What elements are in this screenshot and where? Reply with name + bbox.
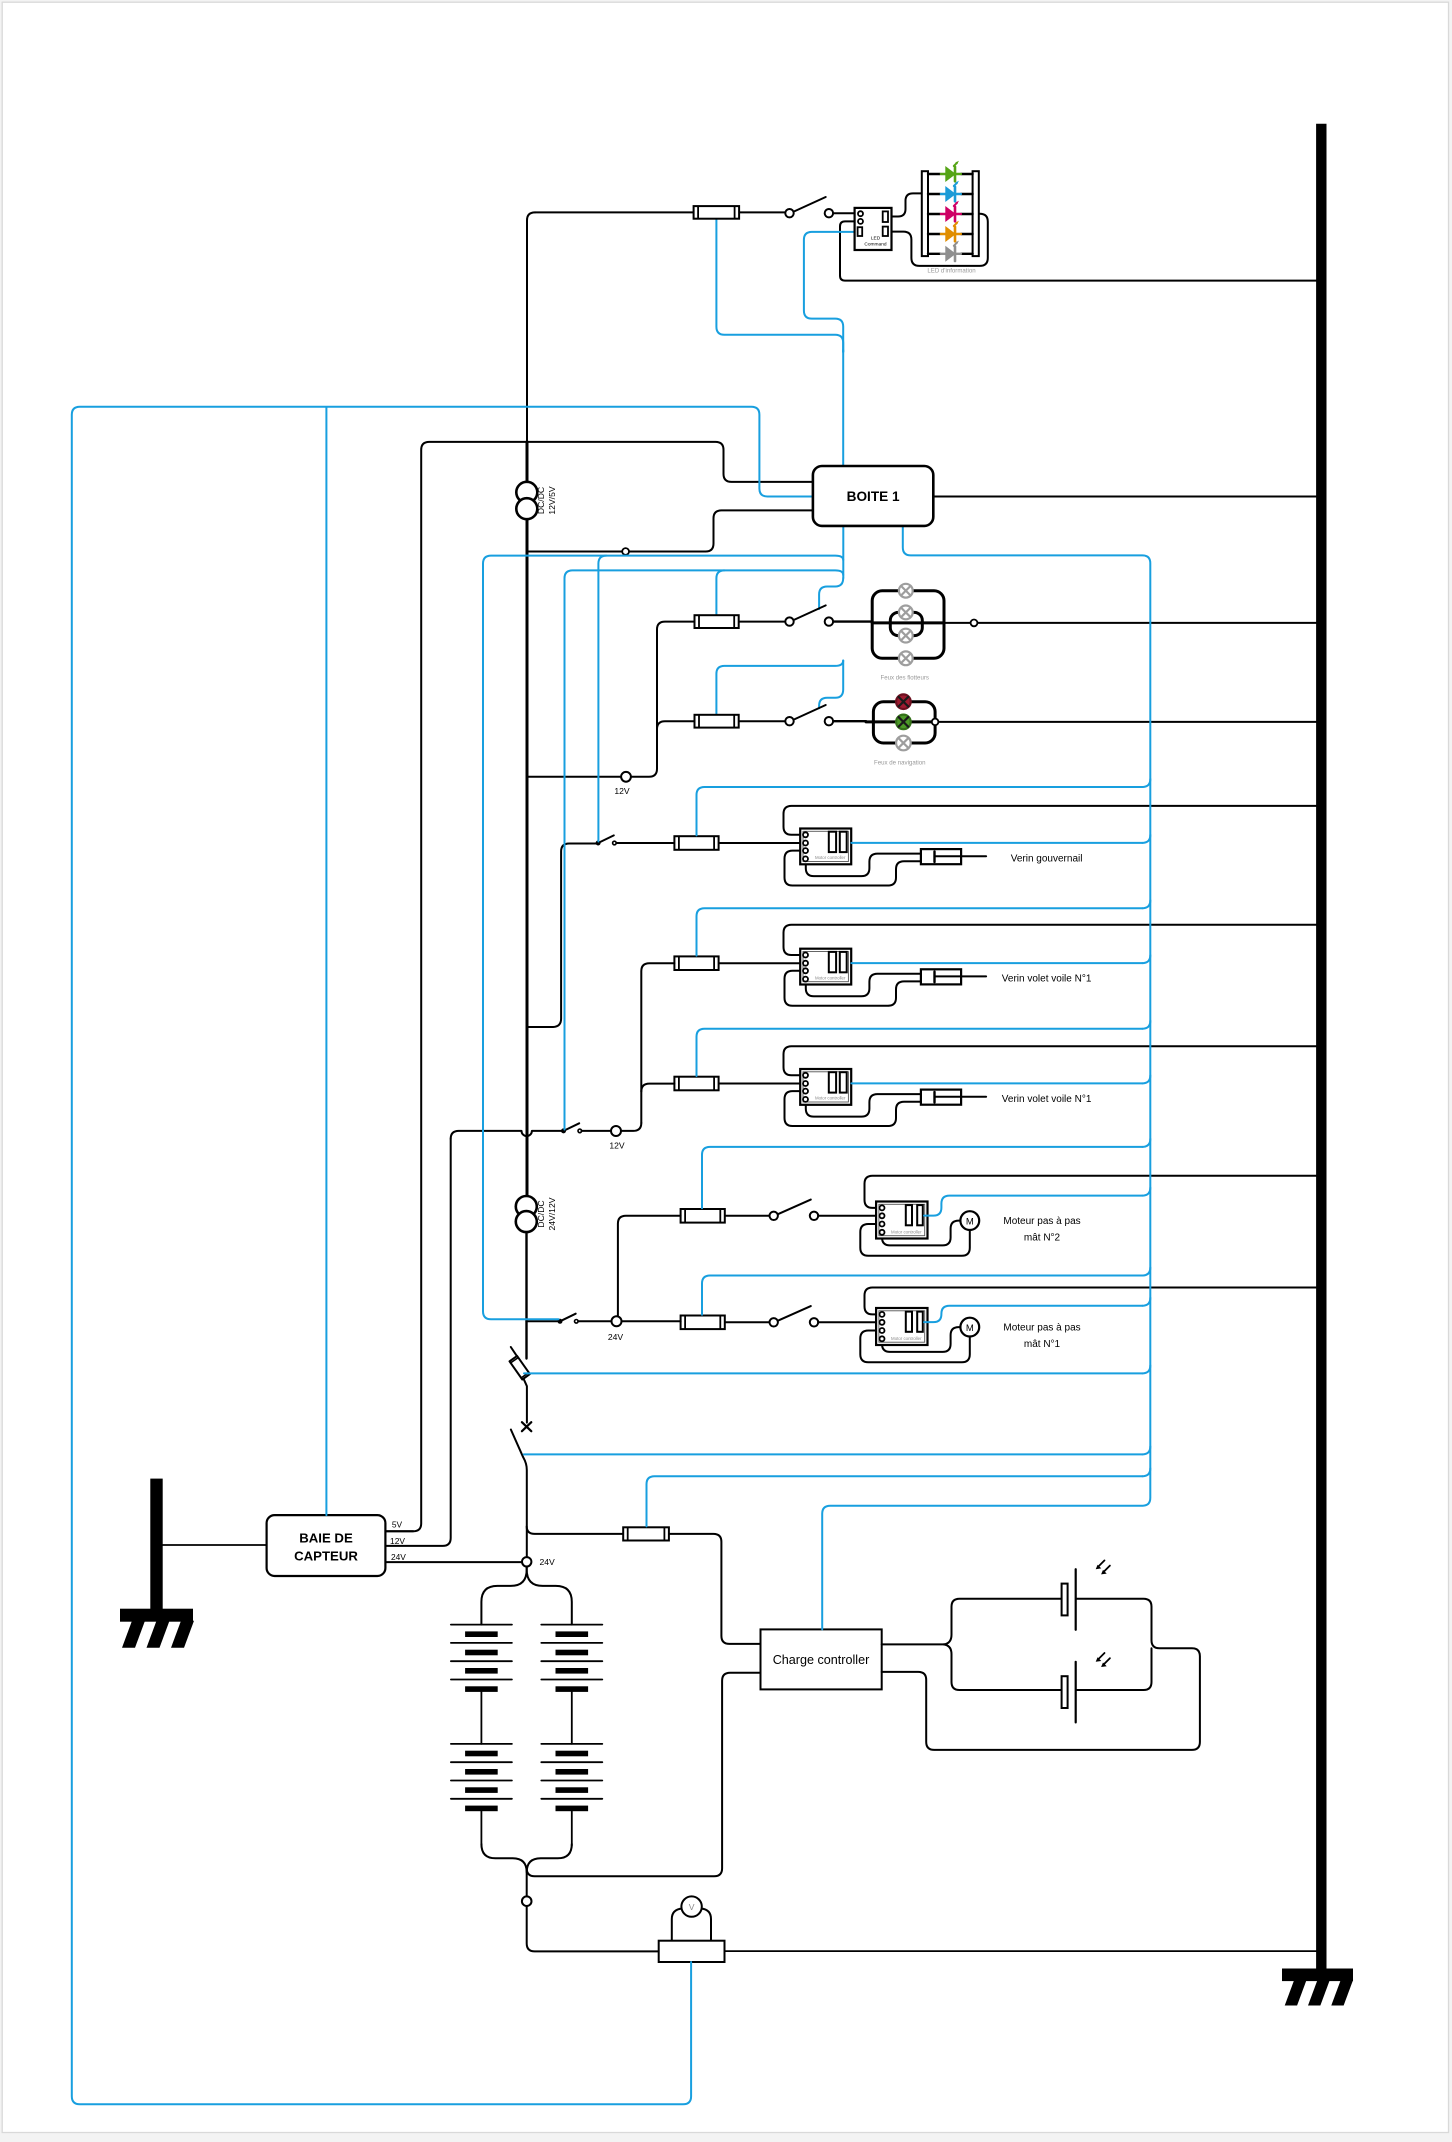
box Charge controller [761,1629,882,1689]
wire: LED Command to LED array right rail [888,214,988,266]
blue signal: shunt sense loop to BOITE1 [72,407,813,2105]
battery string 2 [571,1689,573,1744]
actuator cylinder (Verin volet voile N&#176;1) [921,969,961,984]
node after nav lamps [932,719,939,726]
box BAIE DE CAPTEUR [267,1515,386,1576]
wire: spine branch to 24V switch [526,1320,558,1322]
LED D3 (pink) [928,213,940,215]
wire: charge controller to solar panels (split) [882,1643,944,1645]
blue drop to rudder switch [598,556,606,842]
fused disconnect on main spine [511,1347,517,1357]
svg-text:M: M [966,1323,974,1334]
fuse F-float-lights [695,615,739,628]
wire: LED circuit feed from spine [535,211,785,213]
wire: BAIE 24V pin to node [385,1561,521,1563]
fuse F (Verin volet voile N&#176;1) [674,1077,718,1091]
blue branch H1 with drops [483,556,843,1320]
svg-text:24V: 24V [608,1332,624,1342]
svg-text:BAIE DE: BAIE DE [299,1531,353,1546]
lamp green (stbd nav light) [896,715,911,730]
svg-text:Verin gouvernail: Verin gouvernail [1011,854,1083,865]
svg-text:LED d'information: LED d'information [927,268,975,275]
wire: switch to 24V node and mast1 fuse [578,1320,680,1322]
fuse F (Verin volet voile N&#176;1) [674,956,718,970]
blue: volet1 fuse sense [1142,900,1150,908]
wire: switch to 12V node [582,1130,612,1132]
blue S-curve to float-lights switch lever [819,578,843,609]
wire: branch to second sail-flap fuse [641,1084,674,1092]
wire: motor controller return to bus (y=924.7) [784,925,1317,955]
fuse F-LED [694,206,740,219]
fuse F (m&#226;t N&#176;1) [681,1316,725,1330]
actuator cylinder (Verin gouvernail) [921,849,961,864]
blue: mast2 fuse sense [1142,1139,1150,1147]
wire: branch to navigation-light fuse [657,721,695,729]
blue signal: BOITE1 to control bus riser [822,526,1150,1630]
wire: nav-lights switch to lamp group [833,720,866,722]
switch SW (m&#226;t N&#176;1) [778,1306,811,1321]
node 12V actuator rail [611,1126,621,1136]
blue S-curve to nav-lights switch lever [819,661,843,709]
wire: nav-lights fuse to switch [739,720,786,722]
node 24V stepper rail [612,1316,622,1326]
DC/DC converter 24V/12V [516,1196,537,1217]
lamp L2 (float light) [899,606,913,620]
wire: motor controller to actuator (inner loop) [806,974,921,997]
blue: battery fuse sense [1142,1468,1150,1476]
lamp L4 (float light) [899,651,913,665]
blue branch H2 with drops [565,570,844,1129]
svg-text:24V: 24V [391,1552,406,1562]
wire: battery fuse to charge controller input [669,1534,761,1644]
wire: float-lights to bus [944,622,1316,624]
wire: stepper return to bus (y=1175.7) [865,1176,1317,1208]
switch SW-verin-gouvernail (relay contact) [598,835,614,843]
blue: fused-disconnect sense [1142,1365,1150,1373]
svg-text:LED: LED [871,236,881,242]
wire: ground to BAIE DE CAPTEUR [163,1544,267,1546]
blue: battery switch ctrl [1142,1446,1150,1454]
LED D5 (gray) [928,253,940,255]
svg-text:Feux des flotteurs: Feux des flotteurs [880,675,928,682]
svg-text:DC/DC24V/12V: DC/DC24V/12V [536,1197,557,1230]
switch SW-nav-lights [794,705,826,720]
node after float lamps [971,620,978,627]
open-circuit X mark [522,1422,531,1431]
switch SW-float-lights [794,605,826,620]
node battery junction [522,1896,532,1906]
svg-text:V: V [689,1902,695,1912]
switch SW-LED [794,197,826,212]
wire: 12V branch to BOITE1 pin2 [527,510,813,551]
wire: solar panel 1 return [882,1599,1200,1750]
svg-text:CAPTEUR: CAPTEUR [294,1549,358,1564]
svg-text:Motor controller: Motor controller [815,855,846,860]
wire: spine lower section to disconnect [525,1232,527,1359]
svg-text:12V: 12V [609,1141,625,1151]
svg-text:mât N°2: mât N°2 [1024,1233,1061,1244]
wire: battery strings merge [481,1844,526,1896]
wire: 12V node to riser [621,1123,641,1131]
blue branch H3 to nav-lights fuse [716,661,843,714]
blue: mast1 controller ctrl [1142,1298,1150,1306]
lamp red (port nav light) [896,694,911,709]
DC/DC converter 12V/5V [516,482,537,503]
earth ground (bottom right) [1282,1969,1353,1982]
svg-text:Moteur pas à pas: Moteur pas à pas [1003,1216,1080,1227]
wire: float-lights switch to lamp group [833,620,872,622]
wire: main power spine (5V feed top) [527,212,535,442]
blue: volet1 controller ctrl [1142,955,1150,963]
wire: 12V lamp branch from spine [527,622,695,777]
svg-text:Motor controller: Motor controller [815,1096,846,1101]
svg-text:Verin volet voile N°1: Verin volet voile N°1 [1002,974,1092,985]
wire: battery negative to shunt [527,1906,659,1951]
solar panel PV1 [1062,1584,1068,1616]
wire: controller to motor M (outer) [860,1331,970,1363]
wire: 24V node riser to mast2 row [618,1216,681,1317]
blue: volet2 fuse sense [1142,1021,1150,1029]
blue: mast1 fuse sense [1142,1268,1150,1276]
wire: nav-lights to bus [935,721,1316,723]
wire: feed riser for rudder actuator row [527,844,597,1028]
node on 12V branch [622,548,629,555]
wire: BOITE1 to ground bus [933,496,1316,498]
LED D2 (blue) [928,193,940,195]
IC LED Command [855,208,892,250]
wire: controller to motor M (inner) [882,1221,961,1246]
main battery disconnect switch [511,1430,527,1557]
svg-text:5V: 5V [392,1520,403,1530]
motor controller U (m&#226;t N&#176;2) [876,1202,927,1239]
svg-text:Motor controller: Motor controller [891,1229,922,1234]
wire: fuse to motor controller (y=963.2) [719,962,803,964]
LED array rails [922,171,928,256]
wire: shunt to ground bus [725,1950,1317,1952]
fuse F-battery [623,1527,669,1540]
wire: stepper return to bus (y=1287.5) [865,1288,1317,1315]
motor controller U (m&#226;t N&#176;1) [876,1308,927,1345]
node 24V battery rail [481,1566,526,1624]
solar panel PV2 [1062,1676,1068,1708]
wire: motor controller to actuator (outer loop) [785,851,921,886]
node 12V lamp rail [621,772,631,782]
motor controller U (Verin volet voile N&#176;1) [800,949,851,985]
wire: LED Command to LED array left rail [888,193,922,216]
wire: switch to motor controller (m&#226;t N&#176;2) [818,1215,879,1217]
blue signal: LED Command ctrl [804,232,858,352]
blue: rudder controller ctrl [1142,835,1150,843]
wire: solar panel 2 return [1077,1648,1152,1690]
lamp white (stern nav light) [896,736,911,751]
motor controller U (Verin gouvernail) [800,829,851,865]
svg-text:Moteur pas à pas: Moteur pas à pas [1003,1323,1080,1334]
svg-text:12V: 12V [614,786,630,796]
switch SW-volet (relay contact) [564,1123,580,1131]
switch SW (m&#226;t N&#176;2) [778,1200,811,1215]
blue: mast2 controller ctrl [1142,1188,1150,1196]
wire: controller to motor M (outer) [860,1224,970,1256]
lamp L3 (float light) [899,629,913,643]
wire: battery positive to charge controller [527,1673,761,1877]
blue signal: BOITE1 to BAIE DE CAPTEUR [325,408,327,1515]
box BOITE 1 [813,466,933,526]
svg-text:Motor controller: Motor controller [815,975,846,980]
earth ground (left) [150,1479,162,1612]
blue signal: LED fuse sense [716,219,843,352]
svg-text:Charge controller: Charge controller [773,1653,870,1667]
wire: 5V rail BAIE-to-BOITE1 via top [385,442,813,1531]
wire: motor controller to actuator (inner loop) [806,1094,921,1117]
blue: volet2 controller ctrl [1142,1075,1150,1083]
wire: main power spine (12V section) [526,442,529,1196]
wire: motor controller to actuator (outer loop) [785,971,921,1006]
svg-text:DC/DC12V/5V: DC/DC12V/5V [536,486,557,514]
svg-text:M: M [966,1216,974,1227]
wire: LED Command pin2 return to bus [840,221,1316,280]
battery string 1 [480,1689,482,1744]
blue signal: BOITE1 main control drop [842,350,844,466]
motor M (m&#226;t N&#176;2) [960,1211,979,1230]
lamp L1 (float light) [899,584,913,598]
wire: motor controller return to bus (y=805.9) [784,806,1317,835]
voltmeter V [672,1909,682,1941]
wire: controller to motor M (inner) [882,1327,961,1352]
wire: fuse to motor controller (y=1083.5) [719,1083,803,1085]
wire: LED switch to LED Command [833,212,858,214]
wire: fuse to motor controller (y=843.0) [719,842,803,844]
LED D4 (orange) [928,233,940,235]
motor M (m&#226;t N&#176;1) [960,1318,979,1337]
wire: 24V feed to stepper fuse (m&#226;t N&#176;2) [723,1215,769,1217]
shunt resistor [659,1941,725,1962]
svg-text:24V: 24V [540,1557,556,1567]
blue drop to float-lights fuse [716,570,724,614]
fuse F (Verin gouvernail) [674,836,718,850]
wire: 12V row from BAIE riser with crossover jog [451,1131,562,1139]
fuse F-nav-lights [695,715,739,728]
wire: switch to fuse (rudder) [616,842,674,844]
svg-text:Command: Command [864,242,886,248]
lamp group Feux de navigation wiring [866,720,935,723]
lamp group Feux des flotteurs wiring [872,621,944,624]
wire: BAIE 12V pin riser [385,1139,450,1546]
motor controller U (Verin volet voile N&#176;1) [800,1069,851,1105]
wire: switch to motor controller (m&#226;t N&#176;1) [818,1321,879,1323]
wire: 24V feed to stepper fuse (m&#226;t N&#176;1) [723,1321,769,1323]
svg-text:BOITE 1: BOITE 1 [847,489,900,504]
switch SW-24V (relay contact) [560,1314,576,1322]
wire: right ground bus [1316,124,1326,1970]
svg-text:12V: 12V [390,1536,405,1546]
svg-text:mât N°1: mât N°1 [1024,1339,1061,1350]
actuator cylinder (Verin volet voile N&#176;1) [921,1090,961,1105]
wire: float-lights fuse to switch [739,621,786,623]
blue: rudder fuse sense [1142,779,1150,787]
svg-text:Motor controller: Motor controller [891,1336,922,1341]
wire: BAIE 5V pin [385,1530,413,1532]
wire: 12V riser feeding sail-flap actuator fuses [641,963,674,1123]
wire: motor controller return to bus (y=1046.3) [784,1046,1317,1075]
wire: motor controller to actuator (inner loop) [806,854,921,877]
fuse F (m&#226;t N&#176;2) [681,1209,725,1223]
LED D1 (green) [928,173,940,175]
svg-text:Verin volet voile N°1: Verin volet voile N°1 [1002,1094,1092,1105]
svg-text:Feux de navigation: Feux de navigation [874,760,926,767]
wire: spine branch to battery fuse [527,1526,624,1534]
wire: motor controller to actuator (outer loop) [785,1091,921,1126]
